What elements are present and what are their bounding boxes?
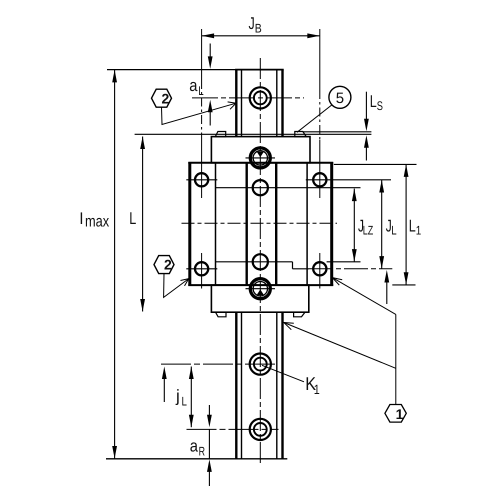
hole column centerline left: [201, 29, 203, 289]
block horizontal centerline: [182, 222, 338, 224]
JLZ dimension line: [352, 189, 357, 262]
L1 bottom extension line: [392, 284, 415, 286]
top end plate: [211, 137, 310, 163]
svg-text:max: max: [85, 214, 109, 231]
seal tab bottom-left: [216, 312, 227, 317]
LS dimension arrows: [364, 92, 369, 161]
jL dimension line: [189, 367, 194, 428]
aR dimension: [207, 405, 212, 486]
rail top edge extension line: [107, 69, 236, 71]
aL dimension arrows: [208, 44, 213, 126]
balloon 1 leader upper diagonal: [332, 278, 396, 315]
JL dimension line: [379, 180, 384, 269]
svg-text:L: L: [370, 92, 377, 111]
middle hole upper: [253, 180, 268, 195]
jL reference line: [161, 363, 278, 365]
balloon 2 lower: [154, 256, 174, 274]
svg-text:l: l: [80, 211, 84, 228]
balloon 5 leader: [297, 105, 332, 132]
middle hole lower centerline: [216, 261, 293, 263]
svg-text:a: a: [190, 436, 199, 455]
svg-text:2: 2: [162, 90, 170, 106]
step notch vertical: [292, 262, 294, 269]
rail hole K1: [250, 354, 271, 375]
svg-text:1: 1: [314, 382, 320, 397]
lmax dimension line: [112, 70, 117, 459]
svg-text:L: L: [409, 217, 416, 236]
seal strip top line (LS): [303, 131, 372, 133]
rail mounting hole top: [250, 87, 271, 108]
carriage main block outline: [188, 162, 333, 286]
svg-text:S: S: [377, 99, 383, 113]
lube port bottom: [246, 279, 276, 299]
rail centerline: [259, 58, 261, 465]
balloon 2 lower leader: [164, 274, 189, 298]
L1 top extension line: [334, 163, 417, 165]
lube port top: [246, 148, 276, 168]
svg-text:5: 5: [336, 90, 344, 107]
JB dimension line: [202, 33, 320, 38]
corner hole top-left: [195, 173, 208, 186]
balloon 2 upper: [152, 89, 172, 107]
K1 leader: [262, 365, 304, 382]
svg-text:2: 2: [164, 257, 172, 273]
extra up arrow at JL bottom: [384, 270, 389, 304]
balloon 2 upper leader: [162, 102, 237, 125]
bottom end plate: [211, 285, 308, 312]
L1 dimension line: [404, 164, 409, 284]
balloon 1 leader lower diagonal: [284, 323, 396, 369]
corner hole bottom-left: [195, 262, 208, 275]
middle hole lower: [253, 254, 268, 269]
svg-text:L: L: [391, 224, 396, 238]
seal tab bottom-right: [294, 312, 305, 317]
rail top segment: [235, 70, 284, 137]
svg-text:B: B: [255, 22, 262, 36]
crosshair bottom-left hole: [186, 268, 217, 270]
balloon 5: [329, 86, 351, 108]
svg-text:a: a: [189, 76, 198, 95]
svg-text:1: 1: [396, 406, 404, 422]
crosshair bottom-right hole / JL bottom extension: [293, 268, 310, 270]
helper up arrow left of jL: [162, 367, 167, 403]
svg-text:1: 1: [416, 224, 422, 238]
svg-text:j: j: [175, 387, 180, 406]
L dimension line: [140, 137, 145, 312]
corner hole bottom-right: [313, 262, 326, 275]
seal strip line: [135, 133, 372, 135]
svg-text:J: J: [249, 14, 255, 33]
rail bottom segment: [236, 312, 282, 459]
corner hole top-right: [313, 173, 326, 186]
rail bottom end line: [106, 458, 287, 460]
aL reference line (top rail hole centerline): [192, 97, 304, 99]
svg-text:LZ: LZ: [363, 224, 374, 238]
seal tab top-left: [215, 132, 225, 137]
aR reference line: [187, 428, 279, 430]
crosshair top-right hole / JL top extension: [306, 179, 391, 181]
balloon 1: [385, 405, 406, 423]
svg-text:L: L: [182, 395, 187, 409]
block inner column lines: [216, 163, 308, 285]
rail hole lower: [250, 419, 271, 440]
balloon 1 leader vertical: [395, 314, 397, 404]
JLZ bottom extension: [327, 261, 361, 263]
svg-text:R: R: [199, 444, 205, 458]
crosshair top-left hole: [186, 179, 217, 181]
svg-text:L: L: [129, 209, 136, 228]
seal tab top-right: [295, 132, 307, 137]
hole column centerline right: [319, 29, 321, 289]
svg-text:L: L: [198, 84, 203, 98]
middle hole upper centerline / JLZ top extension: [216, 187, 361, 189]
